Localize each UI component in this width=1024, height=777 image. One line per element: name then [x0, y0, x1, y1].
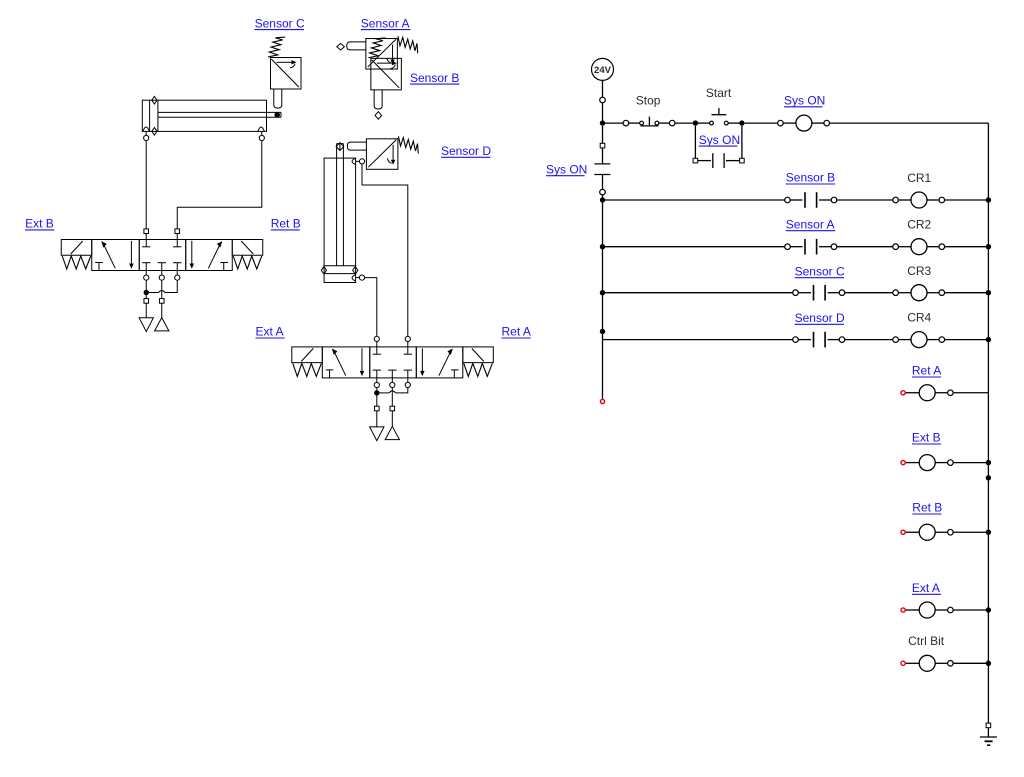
valve V2 bottom piping: junction node: [146, 280, 177, 298]
sensor A label: [361, 16, 411, 30]
sensor D (rotated proximity switch at top of cylinder A): [347, 136, 418, 169]
sensor B (upright proximity switch below sensor A): [368, 38, 401, 109]
svg-text:CR2: CR2: [907, 218, 931, 232]
svg-text:Sensor C: Sensor C: [795, 264, 845, 278]
Sys ON coil label: [784, 94, 825, 108]
svg-text:Ctrl Bit: Ctrl Bit: [908, 634, 945, 648]
cylinder B (horizontal double-acting cylinder): [142, 96, 281, 140]
node: left rail top junction: [600, 120, 605, 125]
valve V1 pressure source (up triangle): [385, 411, 399, 440]
svg-text:Sensor A: Sensor A: [361, 16, 410, 30]
node: Start right junction: [739, 120, 744, 125]
node on right rail below Ext B: [986, 475, 991, 480]
wire terminal square: [144, 229, 149, 234]
valve V2 junction dot: [144, 290, 149, 295]
node CR4 left: [600, 329, 605, 334]
valve V1 bottom piping: junction node: [377, 388, 408, 406]
wire cylinder A bottom port to valve A port 4: [365, 278, 377, 347]
valve solenoid row Ret A: [905, 392, 988, 394]
sensor A (rotated proximity switch, stem pointing left): [347, 36, 418, 69]
Sys ON series contact label: [546, 162, 587, 176]
cylinder A (vertical double-acting cylinder, rod up): [321, 143, 364, 283]
valve solenoid row Ext A: [905, 609, 988, 611]
svg-text:Ret B: Ret B: [912, 501, 942, 515]
sensor B actuation diamond: [375, 112, 382, 120]
svg-text:Ret B: Ret B: [271, 217, 301, 231]
svg-text:Sensor D: Sensor D: [441, 144, 491, 158]
nub on supply wire: [600, 97, 606, 103]
Sensor A contact label: [786, 217, 835, 231]
rung CR1: Sensor B contact: [603, 192, 989, 208]
node CR2 left: [600, 244, 605, 249]
valve A top-left connection nub: [374, 336, 379, 341]
Ext A solenoid label: [912, 581, 941, 595]
Ret A solenoid label: [912, 364, 941, 378]
wire 24V to left rail: [602, 80, 604, 123]
indicator coil Ctrl Bit: [919, 655, 935, 671]
Sensor D contact label: [795, 311, 845, 325]
left rail bottom red terminal: [600, 399, 604, 403]
relay coil CR1: [911, 192, 927, 208]
Sensor B contact label: [786, 171, 835, 185]
wire Stop to Start: [659, 122, 693, 124]
Ret B solenoid label: [912, 501, 942, 515]
relay coil CR3: [911, 285, 927, 301]
pushbutton Stop (NC): [640, 117, 659, 126]
svg-text:Sys ON: Sys ON: [699, 133, 740, 147]
svg-text:Ret A: Ret A: [912, 364, 941, 378]
right rail bottom terminal square: [986, 723, 991, 728]
wire rung 1 segment to Stop: [603, 122, 624, 124]
ground (0V) symbol: [980, 737, 997, 745]
valve V1 exhaust line squares: [375, 406, 380, 411]
Ret A label (valve V1 right solenoid): [502, 325, 531, 339]
svg-text:Ext A: Ext A: [256, 325, 284, 339]
node CR3 left: [600, 290, 605, 295]
sensor C label: [255, 16, 305, 30]
solenoid coil Ext B: [919, 455, 935, 471]
valve V2: 5/3-way double-solenoid valve for cylinder B: [61, 240, 263, 281]
svg-text:Ret A: Ret A: [502, 325, 531, 339]
relay coil CR2: [911, 239, 927, 255]
wire rail to ground: [987, 728, 989, 737]
sensor C (proximity switch above cylinder B rod end): [268, 37, 301, 108]
24V supply: [592, 58, 614, 80]
svg-text:CR1: CR1: [907, 171, 931, 185]
svg-text:Sensor B: Sensor B: [410, 71, 459, 85]
solenoid coil Ret A: [919, 385, 935, 401]
Sensor C contact label: [795, 264, 845, 278]
Ext B label (valve V2 left solenoid): [25, 217, 54, 231]
valve A top-right connection nub: [405, 336, 410, 341]
valve V2 exhaust silencer (down triangle): [139, 303, 153, 331]
valve V2 exhaust line squares: [144, 299, 149, 304]
valve solenoid row Ext B: [905, 462, 988, 464]
node: Start left junction: [693, 120, 698, 125]
rung CR3: Sensor C contact: [603, 285, 989, 301]
rung CR2: Sensor A contact: [603, 239, 989, 255]
valve V1: 5/3-way double-solenoid valve for cylinder A: [292, 347, 494, 388]
solenoid coil Ret B: [919, 524, 935, 540]
svg-text:Ext B: Ext B: [25, 217, 54, 231]
wire cylinder B left port to valve B port 4: [145, 141, 147, 240]
svg-text:CR4: CR4: [907, 311, 931, 325]
wire cylinder A top port to valve A port 2: [362, 164, 408, 347]
left rail segment CR1-CR4 down to red terminal: [602, 200, 604, 399]
rung CR4: Sensor D contact: [603, 332, 989, 348]
Ext B solenoid label: [912, 431, 941, 445]
parallel branch: Sys ON holding contact: [695, 126, 742, 168]
svg-text:Sys ON: Sys ON: [784, 94, 825, 108]
valve V1 junction dot: [374, 390, 379, 395]
wire terminal square: [175, 229, 180, 234]
svg-text:24V: 24V: [594, 65, 612, 76]
svg-text:Stop: Stop: [636, 93, 661, 107]
sensor B label: [410, 71, 459, 85]
svg-text:Ext A: Ext A: [912, 581, 940, 595]
svg-text:Sensor A: Sensor A: [786, 217, 835, 231]
solenoid coil Ext A: [919, 602, 935, 618]
right rail: [987, 123, 989, 725]
Ret B label (valve V2 right solenoid): [271, 217, 301, 231]
valve V1 exhaust silencer (down triangle): [370, 411, 384, 441]
relay coil CR4: [911, 332, 927, 348]
svg-text:Sensor B: Sensor B: [786, 171, 835, 185]
pushbutton Start (NO): [710, 108, 729, 125]
valve V2 pressure source (up triangle): [155, 303, 169, 331]
svg-text:Sensor C: Sensor C: [255, 16, 305, 30]
wire Sys ON coil to right rail: [830, 122, 989, 124]
sensor D label: [441, 144, 491, 158]
node CR1 left: [600, 197, 605, 202]
svg-text:Ext B: Ext B: [912, 431, 941, 445]
wire cylinder B right port to valve B port 2: [177, 141, 262, 240]
wire Start to Sys ON coil: [745, 122, 778, 124]
Sys ON holding contact label: [699, 133, 740, 147]
svg-text:CR3: CR3: [907, 264, 931, 278]
valve solenoid row Ret B: [905, 531, 988, 533]
svg-text:Sensor D: Sensor D: [795, 311, 845, 325]
lamp row Ctrl Bit: [905, 662, 988, 664]
relay coil Sys ON: [796, 115, 812, 131]
svg-text:Sys ON: Sys ON: [546, 162, 587, 176]
svg-text:Start: Start: [706, 86, 732, 100]
sensor A actuation diamond: [337, 43, 345, 50]
Ext A label (valve V1 left solenoid): [256, 325, 285, 339]
left rail: Sys ON series contact: [594, 126, 610, 200]
